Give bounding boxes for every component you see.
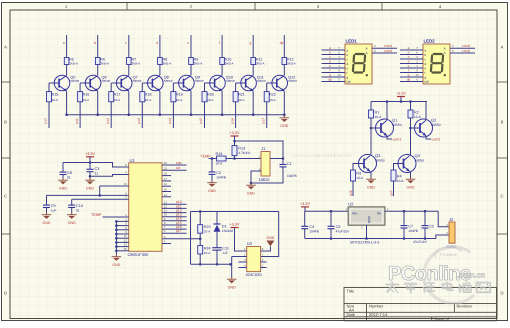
wire C3 down	[89, 172, 91, 178]
svg-text:com2: com2	[432, 137, 441, 141]
svg-text:U1: U1	[130, 158, 136, 163]
junction emitter Q7 on bus	[128, 113, 131, 116]
resistor R18	[140, 92, 145, 102]
wire R24 to bottom	[199, 254, 201, 264]
svg-text:104PB: 104PB	[287, 174, 297, 178]
wire pin14 branch	[99, 186, 101, 195]
svg-text:Q1: Q1	[392, 118, 398, 123]
ground Q4 emitter	[406, 177, 416, 189]
junction C5	[424, 210, 427, 213]
svg-text:GND: GND	[367, 216, 371, 224]
wire to C7	[403, 211, 405, 225]
transistor Q5	[52, 75, 70, 91]
svg-text:R16: R16	[83, 92, 90, 96]
svg-text:2KB-A: 2KB-A	[194, 62, 203, 66]
svg-text:GND: GND	[266, 236, 274, 240]
wire U3 pin 4	[239, 267, 247, 269]
svg-text:GND: GND	[247, 191, 255, 195]
wire Q1 collector to rail	[386, 102, 388, 120]
junction emitter Q12 on bus	[283, 113, 286, 116]
wire base Q9	[173, 82, 176, 84]
svg-text:Q4: Q4	[415, 153, 421, 158]
capacitor C2	[209, 172, 216, 174]
wire C9 to ground	[46, 208, 48, 213]
svg-text:dp: dp	[328, 78, 332, 82]
transistor Q1	[376, 119, 394, 137]
resistor R21	[233, 92, 238, 102]
wire emitter Q12	[283, 91, 285, 114]
wire emitter Q5	[66, 91, 68, 114]
svg-text:R22: R22	[269, 92, 276, 96]
svg-text:S8550: S8550	[288, 79, 297, 83]
svg-text:104PB: 104PB	[309, 230, 319, 234]
svg-text:C4: C4	[309, 225, 314, 229]
junction C7	[403, 210, 406, 213]
svg-text:R18: R18	[145, 92, 152, 96]
wire LED1 segment pin e	[322, 67, 346, 69]
wire strap pin	[116, 225, 128, 227]
svg-text:31: 31	[76, 209, 80, 213]
svg-text:p14: p14	[168, 118, 172, 124]
transistor Q11	[239, 75, 257, 91]
svg-text:2KB-A: 2KB-A	[69, 62, 78, 66]
wire R12 to Q12 collector	[283, 65, 285, 76]
resistor R5	[64, 58, 69, 65]
wire U1 pin net	[162, 228, 187, 230]
svg-text:S8550: S8550	[195, 79, 204, 83]
resistor R15	[47, 92, 52, 102]
svg-text:GND: GND	[112, 263, 120, 267]
svg-text:LED1: LED1	[346, 39, 358, 44]
svg-text:b: b	[329, 51, 331, 55]
svg-text:p17: p17	[176, 229, 182, 233]
svg-text:10-A: 10-A	[238, 98, 244, 102]
svg-text:a: a	[329, 46, 331, 50]
wire U1 bus pin	[162, 169, 187, 171]
resistor R1	[369, 110, 374, 118]
wire emitter Q11	[252, 91, 254, 114]
wire loop top	[191, 211, 279, 213]
ground C3	[85, 178, 95, 190]
capacitor C10	[68, 205, 75, 207]
svg-text:104PB: 104PB	[216, 176, 226, 180]
svg-text:10-A: 10-A	[204, 251, 210, 255]
wire LED2 segment pin f	[400, 72, 423, 74]
wire C2 to ground	[211, 174, 213, 180]
wire C5 to bottom rail	[424, 228, 426, 239]
wire base Q10	[205, 82, 208, 84]
capacitor C4	[301, 226, 308, 228]
wire LED2 segment pin dp	[400, 81, 423, 83]
wire emitter Q10	[221, 91, 223, 114]
7-segment display LED2	[423, 44, 450, 84]
svg-text:C5: C5	[429, 224, 434, 228]
wire power stub	[400, 97, 402, 102]
svg-text:.com.cn: .com.cn	[457, 271, 486, 280]
svg-text:10-A: 10-A	[207, 98, 213, 102]
wire base to R21	[235, 83, 237, 92]
svg-text:10: 10	[415, 73, 419, 77]
svg-text:S8550: S8550	[392, 123, 402, 127]
junction C3 pin4	[89, 175, 92, 178]
junction strap	[115, 245, 118, 248]
junction strap	[115, 237, 118, 240]
wire Q4 emitter to ground	[410, 171, 412, 177]
svg-text:GND: GND	[367, 185, 375, 189]
wire LED1 common pin 8	[372, 52, 397, 54]
svg-text:10-A: 10-A	[356, 176, 364, 180]
svg-text:f: f	[347, 71, 348, 75]
wire to U1 pin 4	[90, 175, 129, 177]
wire to Q2 base	[411, 127, 416, 129]
svg-text:R3: R3	[356, 171, 361, 175]
svg-text:10-A: 10-A	[375, 115, 383, 119]
resistor R23	[198, 225, 203, 234]
wire LED2 segment pin g	[400, 76, 423, 78]
svg-text:C10: C10	[76, 204, 83, 208]
svg-text:C9: C9	[51, 204, 56, 208]
wire power to R13	[234, 136, 236, 146]
svg-text:dp: dp	[407, 78, 411, 82]
svg-text:2KB-A: 2KB-A	[287, 62, 296, 66]
wire R4 to net p07	[393, 181, 395, 196]
resistor R7	[127, 58, 132, 65]
junction +3.3V branch	[233, 140, 236, 143]
wire C6 to bottom rail	[330, 229, 332, 239]
wire U1 bus pin	[162, 164, 187, 166]
transistor Q3	[359, 155, 377, 173]
capacitor C9	[43, 205, 50, 207]
svg-text:+3.3V: +3.3V	[229, 131, 239, 135]
svg-text:R15: R15	[52, 92, 59, 96]
ground J1 C1	[246, 183, 256, 195]
svg-text:10-A: 10-A	[52, 98, 58, 102]
ic U3	[247, 247, 261, 272]
wire strap pin	[116, 233, 128, 235]
wire TEMP to U1	[103, 216, 129, 218]
resistor R13	[232, 146, 237, 156]
svg-text:S8550: S8550	[164, 79, 173, 83]
wire LED1 segment pin c	[322, 58, 346, 60]
resistor R2	[408, 110, 413, 118]
svg-text:f: f	[408, 69, 409, 73]
wire U1 pin net	[162, 216, 187, 218]
resistor R14	[217, 156, 226, 161]
svg-text:C7: C7	[408, 224, 413, 228]
mcu U1	[129, 163, 162, 252]
svg-text:b: b	[408, 51, 410, 55]
ground under Q12 bus	[280, 116, 290, 128]
ground C2	[207, 181, 217, 193]
svg-text:g: g	[249, 41, 251, 45]
wire LED1 segment pin f	[322, 72, 346, 74]
wire +3.3V to J1 C1	[235, 141, 284, 159]
wire LED2 segment pin e	[400, 67, 423, 69]
junction strap	[115, 224, 118, 227]
transistor Q8	[145, 75, 163, 91]
svg-text:GND: GND	[228, 285, 236, 289]
wire loop bottom	[191, 263, 231, 265]
power +3.3V above Q1 Q2	[396, 92, 406, 97]
capacitor C3	[87, 169, 94, 171]
wire rail to R1	[370, 102, 372, 111]
wire R16 to net p11	[79, 102, 81, 128]
wire LED2 segment pin b	[400, 54, 423, 56]
wire collector top Q5	[66, 35, 68, 58]
wire U1 pin stub	[162, 185, 171, 187]
junction	[400, 100, 403, 103]
sensor J1 DS18B20	[261, 152, 270, 177]
svg-text:R4: R4	[397, 175, 402, 179]
wire collector top Q12	[283, 35, 285, 58]
svg-text:1uF: 1uF	[51, 209, 57, 213]
svg-text:b: b	[347, 53, 349, 57]
svg-text:d: d	[329, 60, 331, 64]
junction R23 top	[199, 210, 202, 213]
svg-text:2012-7-14: 2012-7-14	[369, 312, 388, 317]
wire C10 to U1 pin 7	[72, 198, 129, 200]
transistor Q4	[398, 155, 416, 173]
svg-text:S8550: S8550	[133, 79, 142, 83]
wire R1 to Q3 collector	[370, 118, 372, 155]
wire C8 C3 to U1 pin 5	[63, 163, 129, 168]
svg-text:R23: R23	[204, 225, 211, 229]
wire down to C1	[282, 159, 284, 165]
svg-text:com1: com1	[384, 44, 392, 48]
junction emitter Q10 on bus	[221, 113, 224, 116]
transistor Q6	[83, 75, 101, 91]
svg-text:Q2: Q2	[431, 118, 437, 123]
wire U1 pin stub	[162, 175, 171, 177]
wire C4 to bottom rail	[304, 229, 306, 239]
junction strap	[115, 241, 118, 244]
svg-text:d: d	[425, 62, 427, 66]
wire PSU bottom rail	[305, 238, 436, 240]
svg-text:p12: p12	[106, 118, 110, 124]
svg-text:Date: Date	[347, 312, 356, 317]
wire LED1 segment pin g	[322, 76, 346, 78]
svg-text:31: 31	[67, 176, 71, 180]
wire base to R18	[141, 83, 143, 92]
capacitor C6	[328, 226, 335, 228]
junction strap	[115, 220, 118, 223]
transistor Q10	[208, 75, 226, 91]
wire Q3 base to R3	[353, 164, 359, 171]
wire D1 to C11	[216, 232, 218, 248]
wire U3 pin 3	[239, 261, 247, 263]
wire collector top Q9	[190, 35, 192, 58]
svg-text:16: 16	[164, 182, 168, 186]
svg-text:g: g	[425, 75, 427, 79]
svg-text:*#(4Bl&#mBS#8EE#A*R#: *#(4Bl&#mBS#8EE#A*R#	[292, 153, 352, 158]
wire R20 to net p15	[204, 102, 206, 128]
svg-text:+3.3V: +3.3V	[229, 223, 239, 227]
wire J1 pin2	[257, 170, 261, 172]
wire LED1 segment pin a	[322, 49, 346, 51]
svg-text:c: c	[125, 41, 127, 45]
capacitor C7	[401, 226, 408, 228]
wire U1 pin net	[162, 232, 187, 234]
wire R19 to net p14	[172, 102, 174, 128]
svg-text:GND: GND	[407, 185, 415, 189]
svg-text:C6: C6	[336, 225, 341, 229]
svg-text:14: 14	[124, 182, 128, 186]
svg-text:C1: C1	[287, 162, 292, 166]
svg-text:C: C	[4, 194, 7, 199]
wire R7 to Q7 collector	[128, 65, 130, 76]
svg-text:Vo: Vo	[377, 211, 381, 215]
svg-text:2KB-A: 2KB-A	[163, 62, 172, 66]
junction C9 line	[98, 194, 101, 197]
wire LED2 segment pin a	[400, 49, 423, 51]
junction	[229, 263, 232, 266]
svg-text:Title: Title	[347, 289, 355, 294]
svg-text:2KB-A: 2KB-A	[132, 62, 141, 66]
junction rail R2	[409, 100, 412, 103]
svg-text:TEMP: TEMP	[91, 213, 102, 217]
svg-text:R21: R21	[238, 92, 245, 96]
resistor R6	[95, 58, 100, 65]
ground above U3 right	[266, 236, 274, 246]
wire emitter Q7	[128, 91, 130, 114]
svg-text:p11: p11	[75, 118, 79, 124]
svg-text:D: D	[4, 291, 7, 296]
wire emitter Q9	[190, 91, 192, 114]
svg-text:p06: p06	[349, 190, 353, 196]
junction strap	[115, 233, 118, 236]
svg-text:SPX1117M3-L-3-3: SPX1117M3-L-3-3	[350, 241, 379, 245]
svg-text:a: a	[63, 41, 65, 45]
resistor R24	[198, 246, 203, 255]
wire U1 pin net	[162, 212, 187, 214]
wire J1 pin2 to ground	[251, 171, 257, 183]
wire C11 to bottom	[216, 250, 218, 264]
svg-text:19: 19	[164, 166, 168, 170]
transistor Q2	[415, 119, 433, 137]
wire gnd to U3 pin 8	[261, 246, 271, 251]
ground C9	[42, 213, 52, 225]
svg-text:Sheet of: Sheet of	[434, 317, 450, 322]
wire C10 to ground	[71, 208, 73, 213]
svg-text:D1: D1	[222, 225, 227, 229]
wire PSU rail left	[305, 210, 349, 212]
wire power to node	[89, 157, 91, 163]
transistor Q7	[114, 75, 132, 91]
svg-text:p15: p15	[199, 118, 203, 124]
wire Q2 collector to rail	[425, 102, 427, 120]
wire base to R16	[79, 83, 81, 92]
wire R14 to J1	[226, 158, 261, 160]
wire to C8	[62, 163, 64, 173]
junction C1	[282, 157, 285, 160]
svg-text:p16: p16	[230, 118, 234, 124]
svg-text:4.7K/1%: 4.7K/1%	[238, 151, 250, 155]
svg-text:10-A: 10-A	[83, 98, 89, 102]
svg-text:PConline: PConline	[440, 252, 458, 257]
svg-text:GND: GND	[280, 124, 288, 128]
svg-text:p07: p07	[389, 190, 393, 196]
svg-text:S8550: S8550	[70, 79, 79, 83]
wire node to C3	[89, 163, 91, 170]
wire R17 to net p12	[110, 102, 112, 128]
svg-text:C: C	[500, 194, 503, 199]
svg-text:LED2: LED2	[424, 39, 436, 44]
wire J1 to C1	[270, 158, 283, 160]
wire U2 gnd pin	[366, 225, 368, 238]
wire Q3 emitter to ground	[370, 171, 372, 177]
wire emitter Q8	[159, 91, 161, 114]
wire strap pin	[116, 237, 128, 239]
svg-text:R20: R20	[207, 92, 214, 96]
wire U1 pin 14	[100, 185, 129, 187]
svg-text:10-A: 10-A	[216, 161, 224, 165]
wire strap pin	[116, 241, 128, 243]
svg-text:R17: R17	[114, 92, 121, 96]
svg-text:17: 17	[164, 177, 168, 181]
svg-text:g: g	[329, 73, 331, 77]
junction C6	[330, 210, 333, 213]
wire to C10	[71, 199, 73, 205]
junction C2	[211, 157, 214, 160]
wire R6 to Q6 collector	[97, 65, 99, 76]
svg-text:GND: GND	[86, 186, 94, 190]
resistor R3	[351, 170, 356, 181]
wire R23 to R24	[199, 233, 201, 245]
svg-text:C8051F300: C8051F300	[128, 252, 150, 257]
svg-text:2KB-A: 2KB-A	[100, 62, 109, 66]
svg-text:B: B	[4, 120, 7, 125]
resistor R16	[78, 92, 83, 102]
connector J2	[449, 222, 455, 243]
svg-text:com1: com1	[384, 49, 392, 53]
wire LED2 common pin 3	[450, 47, 475, 49]
wire U1 pin net	[162, 207, 187, 209]
svg-text:14: 14	[164, 193, 168, 197]
svg-text:R19: R19	[176, 92, 183, 96]
junction Q2 base	[409, 127, 412, 130]
junction emitter Q9 on bus	[190, 113, 193, 116]
ground C10	[67, 213, 77, 225]
wire to C6	[330, 211, 332, 226]
svg-text:+3.3V: +3.3V	[396, 92, 406, 96]
wire to C9	[46, 195, 48, 205]
svg-text:f: f	[330, 69, 331, 73]
wire R15 to net p10	[48, 102, 50, 128]
wire to R23	[199, 212, 201, 225]
svg-text:U3: U3	[247, 241, 253, 246]
wire to C5	[424, 211, 426, 225]
frame zone ticks	[2, 3, 508, 235]
power +3.3V at R13	[229, 131, 239, 136]
regulator U2	[348, 207, 385, 225]
power +3.3V at U1	[85, 152, 95, 157]
svg-text:S8550: S8550	[257, 79, 266, 83]
svg-text:16: 16	[124, 247, 128, 251]
junction rail Q1	[386, 100, 389, 103]
wire collector top Q8	[159, 35, 161, 58]
svg-text:b: b	[94, 41, 96, 45]
wire U1 to R23 R24 junction	[162, 238, 200, 240]
wire R3 to net p06	[352, 181, 354, 196]
capacitor C5	[422, 226, 429, 228]
svg-text:C8: C8	[67, 171, 72, 175]
svg-text:B: B	[501, 120, 504, 125]
wire +3.3V to U3 pin 1	[235, 228, 247, 252]
wire U1 pin net	[162, 220, 187, 222]
svg-text:18B20: 18B20	[259, 178, 270, 182]
wire base Q5	[49, 82, 52, 84]
junction emitter Q5 on bus	[65, 113, 68, 116]
